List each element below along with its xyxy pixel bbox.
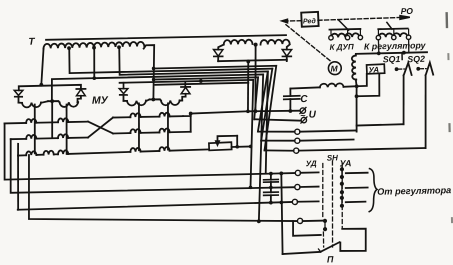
svg-text:~: ~ (300, 110, 306, 120)
svg-text:УД: УД (306, 159, 317, 168)
svg-text:От регулятора: От регулятора (377, 185, 451, 197)
svg-text:УА: УА (339, 158, 351, 168)
svg-text:U: U (309, 109, 317, 120)
svg-text:Ред: Ред (303, 17, 317, 25)
svg-text:УА: УА (368, 65, 379, 74)
svg-text:SQ2: SQ2 (407, 54, 425, 64)
svg-text:К регулятору: К регулятору (364, 40, 427, 51)
svg-text:SQ1: SQ1 (383, 54, 401, 64)
svg-text:М: М (330, 63, 338, 73)
svg-text:РО: РО (401, 6, 414, 16)
svg-text:П: П (327, 254, 334, 264)
svg-text:С: С (300, 94, 308, 105)
svg-text:К ДУП: К ДУП (329, 42, 354, 52)
svg-text:МУ: МУ (92, 94, 109, 106)
